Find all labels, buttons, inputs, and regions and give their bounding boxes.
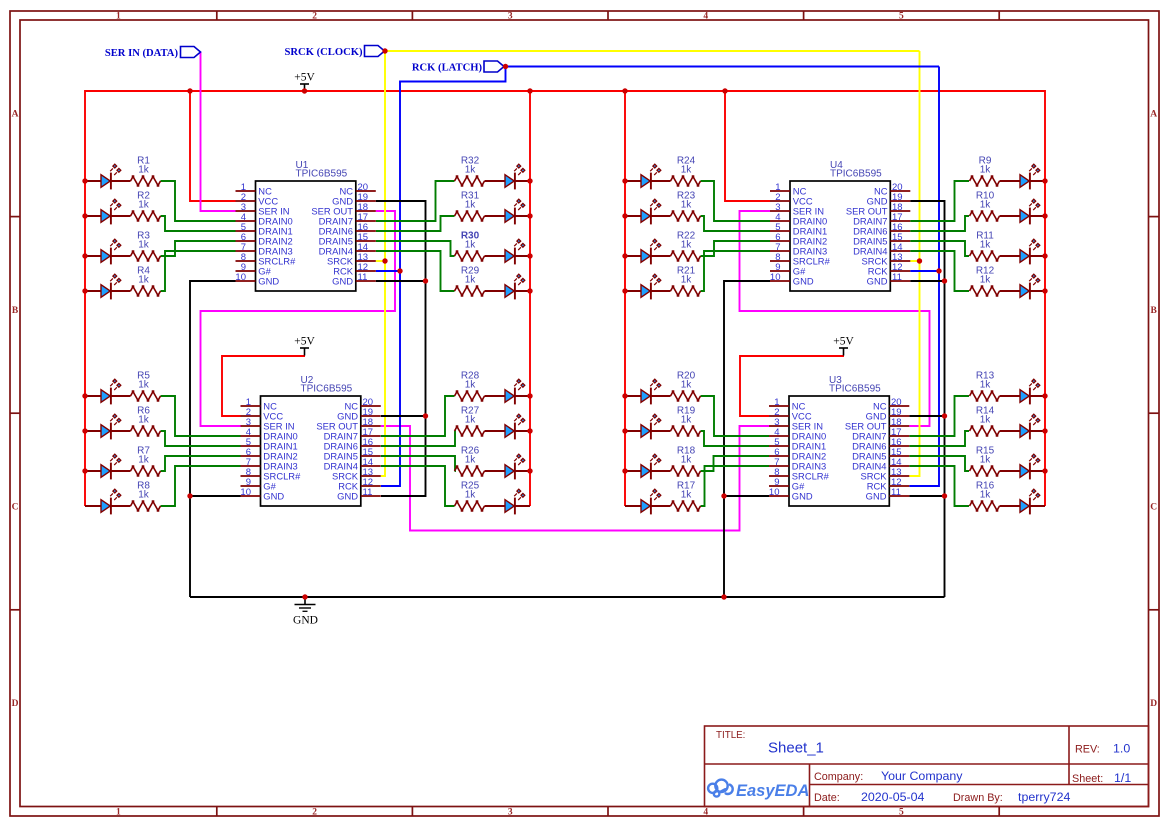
- svg-text:1k: 1k: [681, 200, 693, 211]
- junction LED bus x=625 row y=431: [622, 428, 627, 433]
- junction GND at U4 pin11: [942, 278, 947, 283]
- resistor R26 1k: [455, 446, 485, 477]
- LED for R16: [1000, 489, 1046, 514]
- LED for R18: [625, 454, 671, 479]
- junction LED bus x=530 row y=396: [527, 393, 532, 398]
- resistor R22 1k: [671, 231, 701, 262]
- wire R18 to U3 DRAIN2: [701, 456, 770, 471]
- LED for R29: [485, 274, 531, 299]
- svg-text:C: C: [1150, 503, 1157, 513]
- wire U3 DRAIN7 to R13: [909, 396, 969, 436]
- svg-text:1/1: 1/1: [1114, 771, 1131, 785]
- LED for R19: [625, 414, 671, 439]
- svg-text:1k: 1k: [681, 165, 693, 176]
- svg-text:SRCK (CLOCK): SRCK (CLOCK): [285, 47, 363, 58]
- wire R23 to U4 DRAIN1: [701, 216, 771, 231]
- svg-text:1k: 1k: [465, 165, 477, 176]
- LED for R30: [485, 239, 531, 264]
- junction LED bus x=1045 row y=256: [1042, 253, 1047, 258]
- wire R3 to U1 DRAIN2: [161, 241, 236, 256]
- svg-text:1k: 1k: [681, 380, 693, 391]
- wire R8 to U2 DRAIN3: [161, 466, 241, 506]
- resistor R29 1k: [455, 266, 485, 297]
- wire +5V LED bus left column 1: [84, 90, 86, 506]
- junction LED bus x=530 row y=431: [527, 428, 532, 433]
- svg-text:A: A: [1150, 110, 1157, 120]
- svg-text:1k: 1k: [138, 490, 150, 501]
- wire +5V LED bus column 4: [1044, 90, 1046, 506]
- resistor R5 1k: [131, 371, 161, 402]
- wire R22 to U4 DRAIN2: [701, 241, 771, 256]
- junction top rail / +5V stem: [302, 88, 307, 93]
- svg-text:1k: 1k: [980, 415, 992, 426]
- svg-text:D: D: [1150, 699, 1157, 709]
- LED for R23: [625, 199, 671, 224]
- svg-text:1k: 1k: [681, 275, 693, 286]
- junction LED bus x=85 row y=431: [82, 428, 87, 433]
- junction RCK at U4 pin12: [936, 268, 941, 273]
- IC U3 TPIC6B595: [769, 375, 909, 506]
- junction LED bus x=85 row y=396: [82, 393, 87, 398]
- svg-text:1k: 1k: [980, 240, 992, 251]
- wire U3 DRAIN4 to R16: [909, 466, 969, 506]
- wire GND U3 pin19 tap: [909, 415, 944, 417]
- wire U1 DRAIN5 to R30: [376, 241, 455, 256]
- svg-text:1k: 1k: [681, 455, 693, 466]
- junction LED bus x=625 row y=291: [622, 288, 627, 293]
- svg-text:1k: 1k: [138, 455, 150, 466]
- svg-text:Sheet:: Sheet:: [1072, 773, 1103, 785]
- power +5V symbol 3: [833, 336, 854, 356]
- LED for R12: [1000, 274, 1046, 299]
- svg-text:SER IN (DATA): SER IN (DATA): [105, 48, 179, 59]
- svg-text:1.0: 1.0: [1113, 742, 1130, 756]
- svg-text:1k: 1k: [465, 455, 477, 466]
- svg-text:TPIC6B595: TPIC6B595: [301, 384, 353, 395]
- LED for R13: [1000, 379, 1046, 404]
- resistor R3 1k: [131, 231, 161, 262]
- LED for R25: [485, 489, 531, 514]
- wire SRCK tap to U4 pin13: [910, 260, 919, 262]
- EasyEDA logo: [708, 780, 809, 800]
- resistor R28 1k: [455, 371, 485, 402]
- junction GND at U2 pin19: [423, 413, 428, 418]
- svg-text:1k: 1k: [681, 490, 693, 501]
- wire U4 DRAIN6 to R10: [910, 216, 969, 231]
- resistor R19 1k: [671, 406, 701, 437]
- resistor R16 1k: [970, 481, 1000, 512]
- wire R20 to U3 DRAIN0: [701, 396, 770, 436]
- junction LED bus x=530 row y=471: [527, 468, 532, 473]
- wire R4 to U1 DRAIN3: [161, 251, 236, 291]
- svg-text:1k: 1k: [681, 415, 693, 426]
- junction LED bus x=85 row y=471: [82, 468, 87, 473]
- svg-text:2: 2: [312, 808, 317, 818]
- wire U3 SER OUT to U4 SER IN: [740, 211, 930, 426]
- wire +5V to U3 VCC: [740, 356, 844, 416]
- resistor R21 1k: [671, 266, 701, 297]
- resistor R6 1k: [131, 406, 161, 437]
- svg-text:4: 4: [703, 808, 708, 818]
- wire U1 SER OUT to U2 SER IN: [201, 211, 396, 426]
- wire U1 DRAIN4 to R29: [376, 251, 455, 291]
- wire RCK left branch to U1/U2 pin12: [381, 67, 506, 487]
- junction LED bus x=625 row y=181: [622, 178, 627, 183]
- LED for R2: [85, 199, 131, 224]
- junction LED bus x=85 row y=216: [82, 213, 87, 218]
- wire +5V LED bus column 3: [624, 90, 626, 506]
- junction GND at U3 pin10: [721, 493, 726, 498]
- wire U2 SER OUT to U3 SER IN: [381, 426, 769, 531]
- net flag RCK (LATCH): [412, 61, 504, 73]
- LED for R11: [1000, 239, 1046, 264]
- wire +5V LED bus column 2: [529, 90, 531, 506]
- wire GND U4/U3 right side vertical: [910, 201, 944, 597]
- wire R5 to U2 DRAIN0: [161, 396, 241, 436]
- svg-text:+5V: +5V: [294, 72, 315, 84]
- svg-text:C: C: [12, 503, 19, 513]
- svg-text:Date:: Date:: [814, 792, 840, 804]
- junction LED bus x=530 row y=291: [527, 288, 532, 293]
- junction GND at U2 pin10: [187, 493, 192, 498]
- junction top rail / bus column 2: [527, 88, 532, 93]
- power +5V symbol 1: [294, 72, 315, 92]
- svg-text:3: 3: [508, 12, 513, 22]
- LED for R4: [85, 274, 131, 299]
- junction GND bus / middle drop: [721, 594, 726, 599]
- LED for R22: [625, 239, 671, 264]
- junction LED bus x=85 row y=181: [82, 178, 87, 183]
- wire GND U1 pin11 tap: [376, 280, 426, 282]
- svg-text:1k: 1k: [681, 240, 693, 251]
- svg-text:1k: 1k: [138, 380, 150, 391]
- wire GND U3 pin10 tap: [724, 495, 769, 497]
- resistor R25 1k: [455, 481, 485, 512]
- LED for R26: [485, 454, 531, 479]
- net flag SRCK (CLOCK): [285, 46, 385, 58]
- ground GND symbol: [293, 597, 318, 627]
- wire SRCK left branch to U1/U2 pin13: [381, 51, 385, 476]
- LED for R5: [85, 379, 131, 404]
- wire R17 to U3 DRAIN3: [701, 466, 770, 506]
- resistor R20 1k: [671, 371, 701, 402]
- svg-text:A: A: [12, 110, 19, 120]
- wire RCK tap to U4 pin12: [910, 270, 939, 272]
- svg-text:+5V: +5V: [294, 336, 315, 348]
- svg-text:1k: 1k: [138, 415, 150, 426]
- svg-text:1k: 1k: [465, 415, 477, 426]
- resistor R11 1k: [970, 231, 1000, 262]
- LED for R7: [85, 454, 131, 479]
- resistor R7 1k: [131, 446, 161, 477]
- wire SRCK (CLOCK) horizontal: [377, 50, 920, 52]
- svg-text:1k: 1k: [138, 200, 150, 211]
- wire SRCK tap to U1 pin13: [376, 260, 385, 262]
- resistor R31 1k: [455, 191, 485, 222]
- wire SRCK right branch to U4/U3 pin13: [909, 51, 919, 476]
- svg-text:1k: 1k: [465, 490, 477, 501]
- resistor R27 1k: [455, 406, 485, 437]
- svg-text:4: 4: [703, 12, 708, 22]
- wire U4 DRAIN5 to R11: [910, 241, 969, 256]
- resistor R1 1k: [131, 156, 161, 187]
- junction top rail / bus column 3: [622, 88, 627, 93]
- LED for R15: [1000, 454, 1046, 479]
- resistor R8 1k: [131, 481, 161, 512]
- power +5V symbol 2: [294, 336, 315, 356]
- wire GND U1/U2 right side vertical: [376, 201, 426, 496]
- junction LED bus x=1045 row y=291: [1042, 288, 1047, 293]
- junction LED bus x=530 row y=216: [527, 213, 532, 218]
- resistor R10 1k: [970, 191, 1000, 222]
- wire +5V to U2 VCC: [222, 356, 305, 416]
- svg-text:TPIC6B595: TPIC6B595: [830, 169, 882, 180]
- junction LED bus x=1045 row y=181: [1042, 178, 1047, 183]
- wire R24 to U4 DRAIN0: [701, 181, 771, 221]
- svg-text:1k: 1k: [980, 380, 992, 391]
- junction LED bus x=1045 row y=471: [1042, 468, 1047, 473]
- svg-text:Sheet_1: Sheet_1: [768, 740, 824, 757]
- title block: [705, 726, 1149, 807]
- LED for R17: [625, 489, 671, 514]
- wire +5V to U1 VCC: [190, 91, 236, 201]
- resistor R9 1k: [970, 156, 1000, 187]
- wire +5V top rail: [85, 90, 1045, 92]
- resistor R13 1k: [970, 371, 1000, 402]
- wire RCK right branch to U4/U3 pin12: [909, 67, 939, 487]
- svg-text:1k: 1k: [980, 455, 992, 466]
- svg-text:2: 2: [312, 12, 317, 22]
- junction GND bus / ground symbol: [302, 594, 307, 599]
- svg-text:D: D: [12, 699, 19, 709]
- svg-text:1k: 1k: [138, 275, 150, 286]
- wire U2 DRAIN4 to R25: [381, 466, 455, 506]
- wire U1 DRAIN6 to R31: [376, 216, 455, 231]
- junction SRCK at U1 pin13: [382, 258, 387, 263]
- LED for R9: [1000, 164, 1046, 189]
- svg-text:REV:: REV:: [1075, 744, 1100, 756]
- svg-text:B: B: [12, 306, 19, 316]
- svg-text:TITLE:: TITLE:: [716, 730, 745, 741]
- svg-text:GND: GND: [293, 615, 318, 627]
- LED for R21: [625, 274, 671, 299]
- svg-text:Company:: Company:: [814, 771, 863, 783]
- svg-text:2020-05-04: 2020-05-04: [861, 790, 924, 804]
- wire U2 DRAIN6 to R27: [381, 431, 455, 446]
- LED for R14: [1000, 414, 1046, 439]
- wire RCK tap to U1 pin12: [376, 270, 400, 272]
- resistor R15 1k: [970, 446, 1000, 477]
- wire U2 DRAIN5 to R26: [381, 456, 455, 471]
- wire GND U2 pin19 tap: [381, 415, 426, 417]
- junction top rail / U4 VCC drop: [722, 88, 727, 93]
- wire R7 to U2 DRAIN2: [161, 456, 241, 471]
- junction LED bus x=625 row y=256: [622, 253, 627, 258]
- wire U3 DRAIN6 to R14: [909, 431, 969, 446]
- resistor R4 1k: [131, 266, 161, 297]
- LED for R32: [485, 164, 531, 189]
- svg-text:5: 5: [899, 12, 904, 22]
- wire U1 DRAIN7 to R32: [376, 181, 455, 221]
- wire GND U3 pin11 tap: [909, 495, 944, 497]
- junction GND at U1 pin11: [423, 278, 428, 283]
- LED for R27: [485, 414, 531, 439]
- resistor R30 1k: [455, 231, 485, 262]
- svg-text:Drawn By:: Drawn By:: [953, 792, 1003, 804]
- junction RCK flag tee: [503, 64, 508, 69]
- LED for R10: [1000, 199, 1046, 224]
- resistor R14 1k: [970, 406, 1000, 437]
- svg-text:1k: 1k: [138, 165, 150, 176]
- wire R21 to U4 DRAIN3: [701, 251, 771, 291]
- IC U2 TPIC6B595: [240, 375, 380, 506]
- LED for R24: [625, 164, 671, 189]
- resistor R23 1k: [671, 191, 701, 222]
- resistor R24 1k: [671, 156, 701, 187]
- wire RCK (LATCH) flag to right branch: [506, 66, 940, 68]
- svg-text:RCK (LATCH): RCK (LATCH): [412, 62, 483, 73]
- junction GND at U3 pin19: [942, 413, 947, 418]
- svg-text:+5V: +5V: [833, 336, 854, 348]
- svg-text:3: 3: [508, 808, 513, 818]
- junction SRCK flag tee: [382, 48, 387, 53]
- wire R2 to U1 DRAIN1: [161, 216, 236, 231]
- svg-text:1k: 1k: [980, 275, 992, 286]
- svg-text:B: B: [1151, 306, 1158, 316]
- junction top rail / U1 VCC drop: [187, 88, 192, 93]
- wire U2 DRAIN7 to R28: [381, 396, 455, 436]
- wire SER IN (DATA) flag to U1 pin3: [201, 52, 236, 211]
- LED for R6: [85, 414, 131, 439]
- wire R19 to U3 DRAIN1: [701, 431, 770, 446]
- wire GND bottom bus: [190, 596, 945, 598]
- junction LED bus x=85 row y=291: [82, 288, 87, 293]
- svg-text:1k: 1k: [465, 240, 477, 251]
- svg-text:1k: 1k: [980, 165, 992, 176]
- svg-text:1k: 1k: [980, 490, 992, 501]
- junction LED bus x=625 row y=396: [622, 393, 627, 398]
- resistor R2 1k: [131, 191, 161, 222]
- svg-text:TPIC6B595: TPIC6B595: [296, 169, 348, 180]
- svg-text:1: 1: [116, 808, 121, 818]
- junction LED bus x=625 row y=471: [622, 468, 627, 473]
- svg-text:5: 5: [899, 808, 904, 818]
- wire GND U4 pin11 tap: [910, 280, 944, 282]
- junction LED bus x=530 row y=256: [527, 253, 532, 258]
- wire U4 DRAIN7 to R9: [910, 181, 969, 221]
- svg-text:1k: 1k: [138, 240, 150, 251]
- svg-text:1k: 1k: [465, 275, 477, 286]
- svg-text:1: 1: [116, 12, 121, 22]
- junction LED bus x=1045 row y=431: [1042, 428, 1047, 433]
- LED for R31: [485, 199, 531, 224]
- junction LED bus x=530 row y=181: [527, 178, 532, 183]
- wire R6 to U2 DRAIN1: [161, 431, 241, 446]
- svg-text:TPIC6B595: TPIC6B595: [829, 384, 881, 395]
- wire +5V to U4 VCC: [725, 91, 770, 201]
- resistor R17 1k: [671, 481, 701, 512]
- junction RCK at U1 pin12: [397, 268, 402, 273]
- LED for R8: [85, 489, 131, 514]
- IC U4 TPIC6B595: [770, 160, 910, 291]
- IC U1 TPIC6B595: [235, 160, 375, 291]
- svg-text:1k: 1k: [465, 380, 477, 391]
- LED for R3: [85, 239, 131, 264]
- junction LED bus x=85 row y=256: [82, 253, 87, 258]
- wire U4 DRAIN4 to R12: [910, 251, 969, 291]
- svg-text:tperry724: tperry724: [1018, 790, 1070, 804]
- svg-text:Your Company: Your Company: [881, 769, 963, 783]
- LED for R28: [485, 379, 531, 404]
- svg-text:1k: 1k: [465, 200, 477, 211]
- svg-text:1k: 1k: [980, 200, 992, 211]
- wire GND U1 pin10 down left side: [190, 281, 236, 597]
- resistor R12 1k: [970, 266, 1000, 297]
- wire U3 DRAIN5 to R15: [909, 456, 969, 471]
- junction LED bus x=625 row y=216: [622, 213, 627, 218]
- junction SRCK at U4 pin13: [917, 258, 922, 263]
- svg-text:EasyEDA: EasyEDA: [736, 782, 809, 800]
- resistor R32 1k: [455, 156, 485, 187]
- resistor R18 1k: [671, 446, 701, 477]
- LED for R1: [85, 164, 131, 189]
- junction LED bus x=1045 row y=216: [1042, 213, 1047, 218]
- wire R1 to U1 DRAIN0: [161, 181, 236, 221]
- junction LED bus x=1045 row y=396: [1042, 393, 1047, 398]
- wire GND U2 pin10 tap: [190, 495, 241, 497]
- wire GND U4 pin10 down middle: [724, 281, 770, 597]
- net flag SER IN (DATA): [105, 47, 201, 59]
- junction GND at U3 pin11: [942, 493, 947, 498]
- LED for R20: [625, 379, 671, 404]
